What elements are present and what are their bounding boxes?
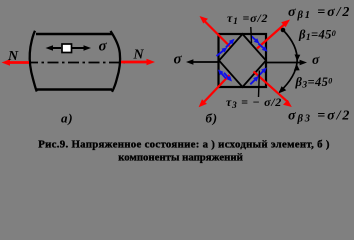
bar right broken edge — [111, 31, 121, 92]
shear arrows (blue) bottom-right edge — [250, 68, 266, 85]
force arrow N left (red) — [2, 59, 30, 65]
force arrow N right (red) — [121, 59, 155, 65]
shear arrows (blue) top-left edge — [217, 39, 235, 56]
angle arc (beta1 and beta3), with end dot and arrowheads — [279, 28, 301, 94]
svg-text:компоненты напряжений: компоненты напряжений — [118, 152, 243, 164]
svg-text:б): б) — [206, 111, 218, 126]
rotated element (diamond) — [219, 34, 266, 87]
svg-text:N: N — [133, 48, 145, 63]
principal arrow bottom-right (red) sigma-beta-3 — [254, 72, 292, 108]
principal arrow bottom-left (red) — [199, 75, 230, 107]
svg-text:β1=450: β1=450 — [298, 28, 336, 44]
principal arrow top-left (red) — [200, 16, 231, 47]
bar left broken edge — [30, 31, 37, 92]
sigma arrow left (black) — [186, 59, 219, 65]
svg-text:σ: σ — [99, 39, 108, 55]
principal arrow top-right (red) sigma-beta-1 — [257, 20, 290, 49]
stress element (white square) — [62, 44, 72, 53]
shear arrows (blue) top-right edge — [251, 36, 268, 52]
square element — [219, 34, 267, 87]
svg-text:Рис.9. Напряженное состояние:: Рис.9. Напряженное состояние: а ) исходн… — [38, 139, 330, 151]
svg-text:σ: σ — [312, 52, 320, 67]
label tau3 = -sigma/2 with pointer — [258, 71, 261, 98]
bar outline (top edge) — [36, 33, 112, 35]
svg-text:N: N — [7, 49, 19, 64]
svg-text:β3=450: β3=450 — [295, 75, 333, 91]
element arrow left — [46, 45, 62, 51]
sigma arrow right (black) — [266, 60, 307, 66]
bar outline (bottom edge) — [36, 88, 112, 90]
shear arrows (blue) bottom-left edge — [218, 70, 232, 82]
svg-text:σ: σ — [174, 52, 183, 68]
element arrow right — [72, 45, 91, 51]
svg-text:а): а) — [61, 111, 73, 126]
centerline (dash-dot) — [27, 62, 125, 64]
label tau1 = sigma/2 with pointer — [250, 27, 253, 43]
